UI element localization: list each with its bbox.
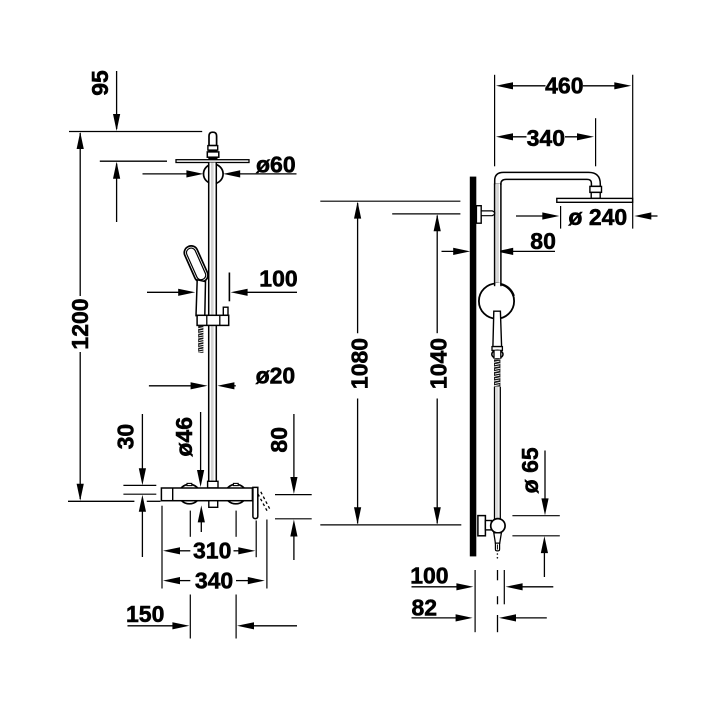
svg-text:1080: 1080 [346, 338, 372, 389]
svg-text:ø60: ø60 [256, 151, 296, 177]
svg-text:ø 240: ø 240 [568, 204, 627, 230]
svg-text:100: 100 [410, 563, 448, 589]
svg-text:ø20: ø20 [256, 362, 296, 388]
svg-text:150: 150 [126, 601, 164, 627]
svg-text:1200: 1200 [67, 298, 93, 349]
svg-text:ø 65: ø 65 [517, 447, 543, 493]
svg-text:100: 100 [259, 266, 297, 292]
svg-text:95: 95 [87, 70, 113, 96]
svg-text:310: 310 [193, 537, 231, 563]
svg-text:80: 80 [530, 228, 556, 254]
svg-text:340: 340 [527, 125, 565, 151]
svg-text:82: 82 [412, 595, 438, 621]
svg-text:460: 460 [545, 73, 583, 99]
svg-text:80: 80 [266, 427, 292, 453]
svg-text:340: 340 [195, 567, 233, 593]
svg-text:ø46: ø46 [171, 417, 197, 457]
svg-text:1040: 1040 [425, 338, 451, 389]
svg-text:30: 30 [112, 424, 138, 450]
